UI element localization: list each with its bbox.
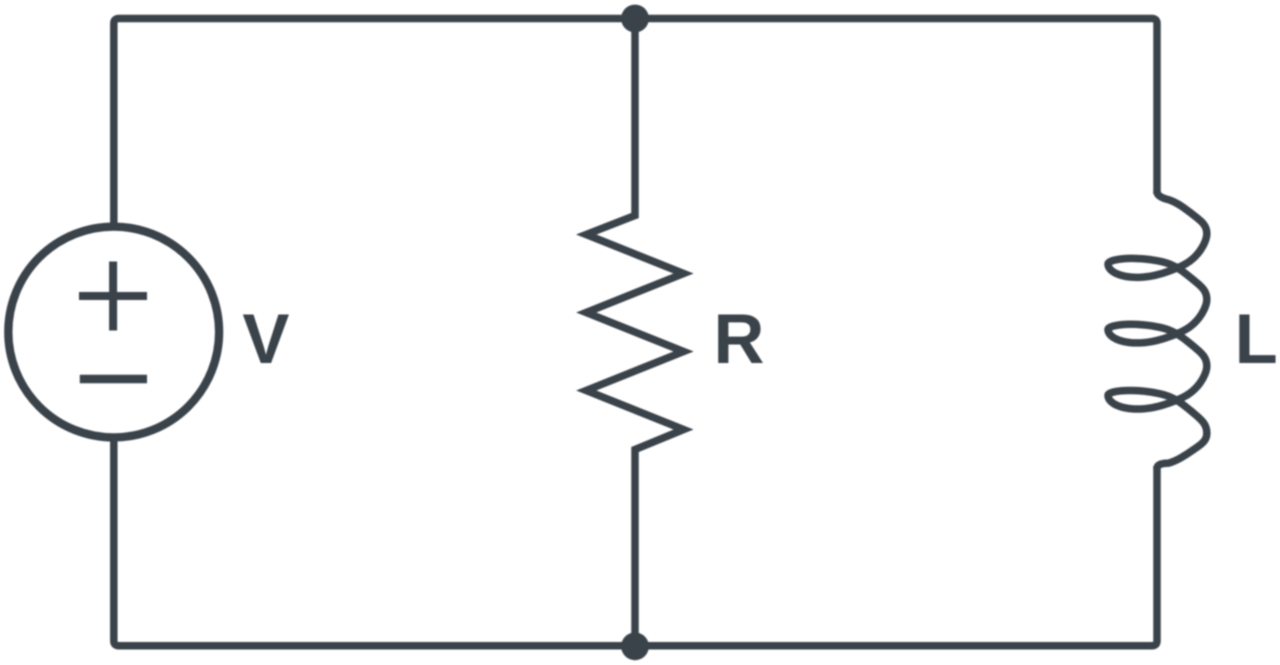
svg-text:L: L — [1235, 299, 1278, 378]
svg-text:R: R — [714, 299, 765, 378]
svg-text:V: V — [242, 299, 289, 378]
